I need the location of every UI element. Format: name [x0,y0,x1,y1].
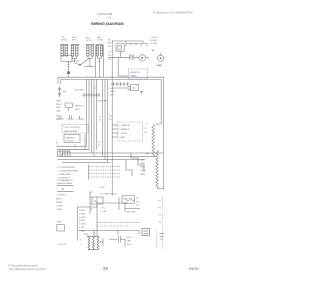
svg-text:3 COMP: 3 COMP [119,133,128,135]
harness bundle wire 5 [102,79,104,156]
svg-text:7 BRN: 7 BRN [79,230,86,232]
fan feed wire [108,56,149,58]
footnote line 2 [8,267,46,271]
timer box label [130,72,141,78]
svg-text:N.C.: N.C. [102,207,107,209]
control board pin ticks [112,125,117,137]
lamp feed wire [85,45,96,77]
junction T [96,197,128,210]
chassis ground bars [160,234,164,240]
timer box B3 [128,69,147,79]
wire label column B [108,88,115,96]
svg-text:R: R [133,86,135,90]
heater L2 label [72,37,77,42]
svg-text:DOOR: DOOR [86,40,92,42]
svg-text:P5: P5 [56,119,59,121]
svg-text:NEUT: NEUT [56,104,62,106]
svg-text:J3: J3 [99,120,102,122]
wire damper drop a [74,144,76,146]
switch S3 [68,116,75,120]
fanout wire row 3 [62,153,163,157]
svg-text:+ 3 EVAP FAN: + 3 EVAP FAN [57,173,71,176]
fanout wire row 4 [58,156,158,158]
svg-text:DOOR: DOOR [97,40,103,42]
capacitor labels [127,237,132,246]
svg-text:5 ORG: 5 ORG [79,224,86,226]
svg-text:COM: COM [102,211,107,213]
wire heater R2 bottom hook [157,187,163,189]
left margin note stack [56,139,58,147]
svg-text:CAP: CAP [127,239,132,242]
supply bus line N [61,79,162,124]
legend row 4 [57,178,71,180]
svg-text:HTR: HTR [72,40,77,42]
svg-text:MOLD: MOLD [62,40,68,42]
svg-text:GN: GN [108,46,111,48]
svg-text:+ 1 COMPRESSOR: + 1 COMPRESSOR [57,167,76,169]
dashed leader long 2 [97,225,128,227]
svg-text:P6: P6 [109,119,112,121]
line switch S5 [59,86,61,97]
start relay box [142,229,150,236]
supply bus line L [58,77,163,190]
svg-text:TO COMP RELAY: TO COMP RELAY [100,193,117,196]
switch S4 [78,116,85,120]
svg-text:RUN: RUN [127,237,132,239]
svg-text:P2: P2 [159,207,162,209]
overload labels [136,198,141,207]
control board box B5 dashed [118,122,143,141]
overload box B8 [122,196,135,204]
fanout wire row 2 [57,149,89,151]
svg-text:2 WHT: 2 WHT [79,213,86,215]
wire bus N to heater R1 [156,123,162,125]
svg-text:BRN: BRN [141,174,146,176]
bottom left note [57,244,69,246]
svg-text:J1: J1 [145,124,148,126]
svg-text:P4: P4 [109,59,111,61]
strip label [94,88,97,90]
svg-text:P1: P1 [159,200,162,202]
svg-text:-- SCH 29 --: -- SCH 29 -- [57,244,69,246]
svg-text:P4: P4 [159,221,162,223]
svg-text:4A: 4A [146,152,149,155]
sensor drop wire [120,51,122,57]
svg-text:* Non-illustrated service part: * Non-illustrated service parts list [8,267,46,271]
wire bar right drop [102,45,104,78]
publication number label [153,11,193,15]
left note rows [56,100,62,112]
harness bundle wire 1 [86,79,88,146]
svg-text:4 FAN: 4 FAN [119,136,125,139]
svg-text:LINE: LINE [56,100,61,102]
leader dash 2 [89,169,120,171]
table value [62,189,65,191]
svg-text:N WHT: N WHT [151,40,159,42]
relay under tick [140,91,143,94]
timer feed wire [118,57,128,76]
svg-text:GRD: GRD [56,107,61,109]
svg-text:WIRING DIAGRAM: WIRING DIAGRAM [91,21,123,26]
defrost heater R1 zigzag [152,124,155,157]
compressor terminal letters [80,234,89,245]
svg-text:6 8 F: 6 8 F [100,187,105,189]
junction note row [100,187,117,195]
interface box B9 [65,103,73,111]
wire heater L3 drop [88,56,92,67]
left list column [56,198,63,211]
margin pin labels [56,116,59,121]
svg-text:6 WATER VALVE: 6 WATER VALVE [57,182,74,185]
svg-text:29: 29 [103,266,108,271]
harness bundle wire 4b [95,79,97,149]
svg-text:NC: NC [140,92,143,94]
svg-text:PTC: PTC [136,202,141,204]
svg-text:GRN: GRN [157,65,162,67]
svg-text:5: 5 [147,59,149,61]
svg-text:N: N [56,143,58,145]
switch box label [94,201,97,203]
side note col [108,39,112,48]
defrost heater R2 zigzag [156,150,158,188]
svg-text:WH: WH [108,43,112,45]
dotted margin wire [161,196,163,250]
pre-board labels [109,115,113,121]
legend row 1 [57,167,76,169]
svg-text:4 RED: 4 RED [79,220,86,222]
terminal list text [151,37,159,45]
svg-text:T1: T1 [98,141,101,143]
part number label [97,12,113,16]
svg-text:MOTOR: MOTOR [66,141,74,143]
wire damper drop b [84,134,86,150]
leader dash 3 [89,173,120,175]
fan note [147,59,149,61]
svg-text:A BLK: A BLK [56,198,62,201]
heater L2 coil pair [71,45,80,56]
svg-text:MTR: MTR [84,234,89,236]
heater L3 label [86,37,92,42]
legend row 2 [57,170,79,173]
terminal pillar box [77,205,97,241]
relay side note [140,92,143,94]
compressor motor M2 windings [87,230,100,250]
dashed leader long 1 [97,221,140,223]
switch S2 [57,116,64,120]
harness bundle wire 2 [88,79,90,149]
table rule bottom [57,190,74,192]
door switch S1 blade [79,59,89,66]
left col extra marks [109,51,111,61]
wire box to bus [68,75,70,78]
svg-text:24: 24 [62,189,65,191]
svg-text:SW: SW [63,92,66,94]
svg-text:SW: SW [94,201,97,203]
svg-text:BLK: BLK [141,159,146,161]
legend row 3 [57,173,71,176]
svg-text:RED: RED [141,167,146,169]
relay K1 label [133,86,135,90]
svg-text:09/10: 09/10 [189,267,199,271]
footnote line 1 [8,263,39,267]
svg-text:2424: 2424 [107,18,112,20]
svg-text:ORG: ORG [75,109,80,111]
small left box [57,225,65,232]
svg-text:D RED: D RED [56,209,63,211]
leader dash 4 [89,176,120,178]
wire top control run [112,41,143,44]
svg-text:L: L [56,139,58,141]
wire note [98,61,101,63]
svg-text:7 LIGHTS: 7 LIGHTS [57,194,67,196]
svg-text:GND: GND [57,222,62,224]
connector J1 [126,43,147,46]
svg-text:DEFROST: DEFROST [130,72,141,74]
drop wire [125,204,140,213]
svg-text:J2: J2 [99,116,102,118]
leader bracket [88,165,90,180]
pillar text rows [79,210,86,232]
heater L1 label [62,37,68,42]
fanout wire row 1 [57,146,87,148]
pilot lamp P1 [158,53,164,62]
svg-text:+ SIG: + SIG [108,94,114,96]
revision date [189,267,199,271]
svg-text:DAMPER: DAMPER [66,136,75,139]
step wire path A [131,153,144,172]
svg-text:P/N242408: P/N242408 [97,12,113,16]
damper box label [66,136,75,142]
svg-text:COLD CONTROL: COLD CONTROL [64,127,81,129]
svg-text:ORG: ORG [141,170,146,172]
fanout wire row 5 [58,159,146,161]
heater L1 coil pair [60,45,69,56]
harness bundle wire 7 [107,79,109,162]
svg-text:S: S [80,239,82,241]
svg-text:J4: J4 [94,88,97,90]
switch S5 label [63,92,66,94]
svg-text:+ GND: + GND [108,91,115,93]
damper box B4b [64,135,80,143]
svg-text:T2: T2 [98,145,101,147]
connector strip J4 [82,93,100,97]
note rows [57,179,74,185]
svg-text:3.5: 3.5 [136,205,140,207]
small left box label [57,222,62,224]
plug pins [130,55,134,60]
svg-text:15uF: 15uF [127,244,132,246]
fanout wire row 6 [62,162,111,164]
relay K1 [112,85,138,91]
svg-text:GRN YEL: GRN YEL [75,105,85,107]
switch box SB [92,197,103,204]
control board label rows [119,125,130,139]
svg-text:L1 BLK: L1 BLK [151,37,158,39]
thermostat box B4 dashed [62,125,88,134]
thermostat label block [146,152,149,155]
wire control vertical [111,40,113,196]
svg-text:J3: J3 [145,132,148,134]
svg-text:2 HEATER: 2 HEATER [119,128,130,131]
wire heater L2 drop [73,56,81,65]
table rule top [57,185,74,187]
leader dash 1 [89,166,120,168]
svg-text:Publication No: 5995543756: Publication No: 5995543756 [153,11,193,15]
svg-text:J2: J2 [145,128,148,130]
svg-text:OL: OL [136,198,140,200]
mid note b [75,105,85,110]
step wire path B [126,160,132,176]
svg-text:B WHT: B WHT [56,202,63,204]
node labels near bundle [99,116,102,121]
svg-text:1 BLK: 1 BLK [79,210,85,212]
svg-text:P2: P2 [109,51,111,53]
svg-text:5 ICEMAKER KIT: 5 ICEMAKER KIT [57,179,74,182]
connector comb pins [58,151,71,157]
svg-text:4x4: 4x4 [109,115,113,117]
sensor box B2 [116,44,124,52]
lamp lead note [157,65,162,67]
svg-text:CAB: CAB [56,110,61,113]
thermostat box B4 label [64,127,81,133]
svg-text:6 YEL: 6 YEL [79,227,85,229]
bracket with ticks [90,192,93,214]
mid note a [75,90,85,92]
harness bundle wire 3 [91,79,93,153]
svg-text:THERMOSTAT: THERMOSTAT [64,130,79,133]
page number [103,266,108,271]
svg-text:3 GRN: 3 GRN [79,217,86,219]
lamp lead note [157,65,162,67]
run capacitor C1 [109,236,125,247]
harness bundle wire 4 [93,79,95,156]
board side pins [145,124,148,134]
bus left drops [58,77,61,84]
ice maker body B1 [61,55,79,61]
svg-text:C: C [80,243,82,245]
heater L3 coil pair [85,45,94,56]
ribbed wire to bus [68,62,70,75]
note row b [57,194,67,196]
model number tiny [107,18,112,20]
bracket labels [102,207,107,212]
pin tick row under bus [111,82,129,86]
svg-text:+ 12V: + 12V [108,88,114,90]
ribbed wire blob [67,72,69,75]
svg-text:BLK WHT: BLK WHT [75,90,85,92]
margin pin notes [159,200,162,223]
mid column labels [141,159,146,175]
heater L4 coil pair [96,45,104,56]
harness bundle wire 6 [104,79,106,159]
svg-text:+ 2 CONDENSER FAN: + 2 CONDENSER FAN [57,170,79,173]
bus junction dots [86,77,91,78]
svg-text:WHT: WHT [141,163,146,165]
compressor run line [77,230,139,234]
svg-text:2W: 2W [98,61,101,63]
svg-text:P3: P3 [159,214,162,216]
title WIRING DIAGRAM [91,21,123,26]
drop labels [127,211,136,213]
svg-text:P3: P3 [109,55,111,57]
fan motor M1 [139,55,145,61]
svg-text:C GRN: C GRN [56,205,63,207]
svg-text:© Authorized factory parts: © Authorized factory parts [8,263,39,267]
fuse label 4A [152,49,155,52]
svg-text:BLK RED: BLK RED [127,211,136,213]
wire heater L4 drop [97,56,101,77]
ground marks [156,230,158,249]
svg-text:BK: BK [108,39,111,41]
svg-text:1 SENSOR: 1 SENSOR [119,125,130,127]
mid note c [98,101,108,103]
bottom left stub [117,230,119,234]
svg-text:4A: 4A [152,49,155,52]
svg-text:G GRN: G GRN [151,43,158,45]
heater L4 label [97,37,103,42]
compressor terminals [99,238,103,246]
node labels right of bundle [98,141,101,146]
